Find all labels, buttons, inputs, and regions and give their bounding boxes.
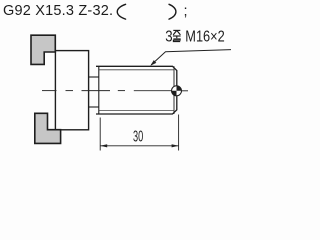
svg-text:3: 3 [165,28,172,45]
svg-text:;: ; [184,4,188,20]
svg-text:G92 X15.3 Z-32.: G92 X15.3 Z-32. [3,3,113,19]
svg-text:M16×2: M16×2 [185,28,224,46]
svg-text:30: 30 [133,128,143,145]
